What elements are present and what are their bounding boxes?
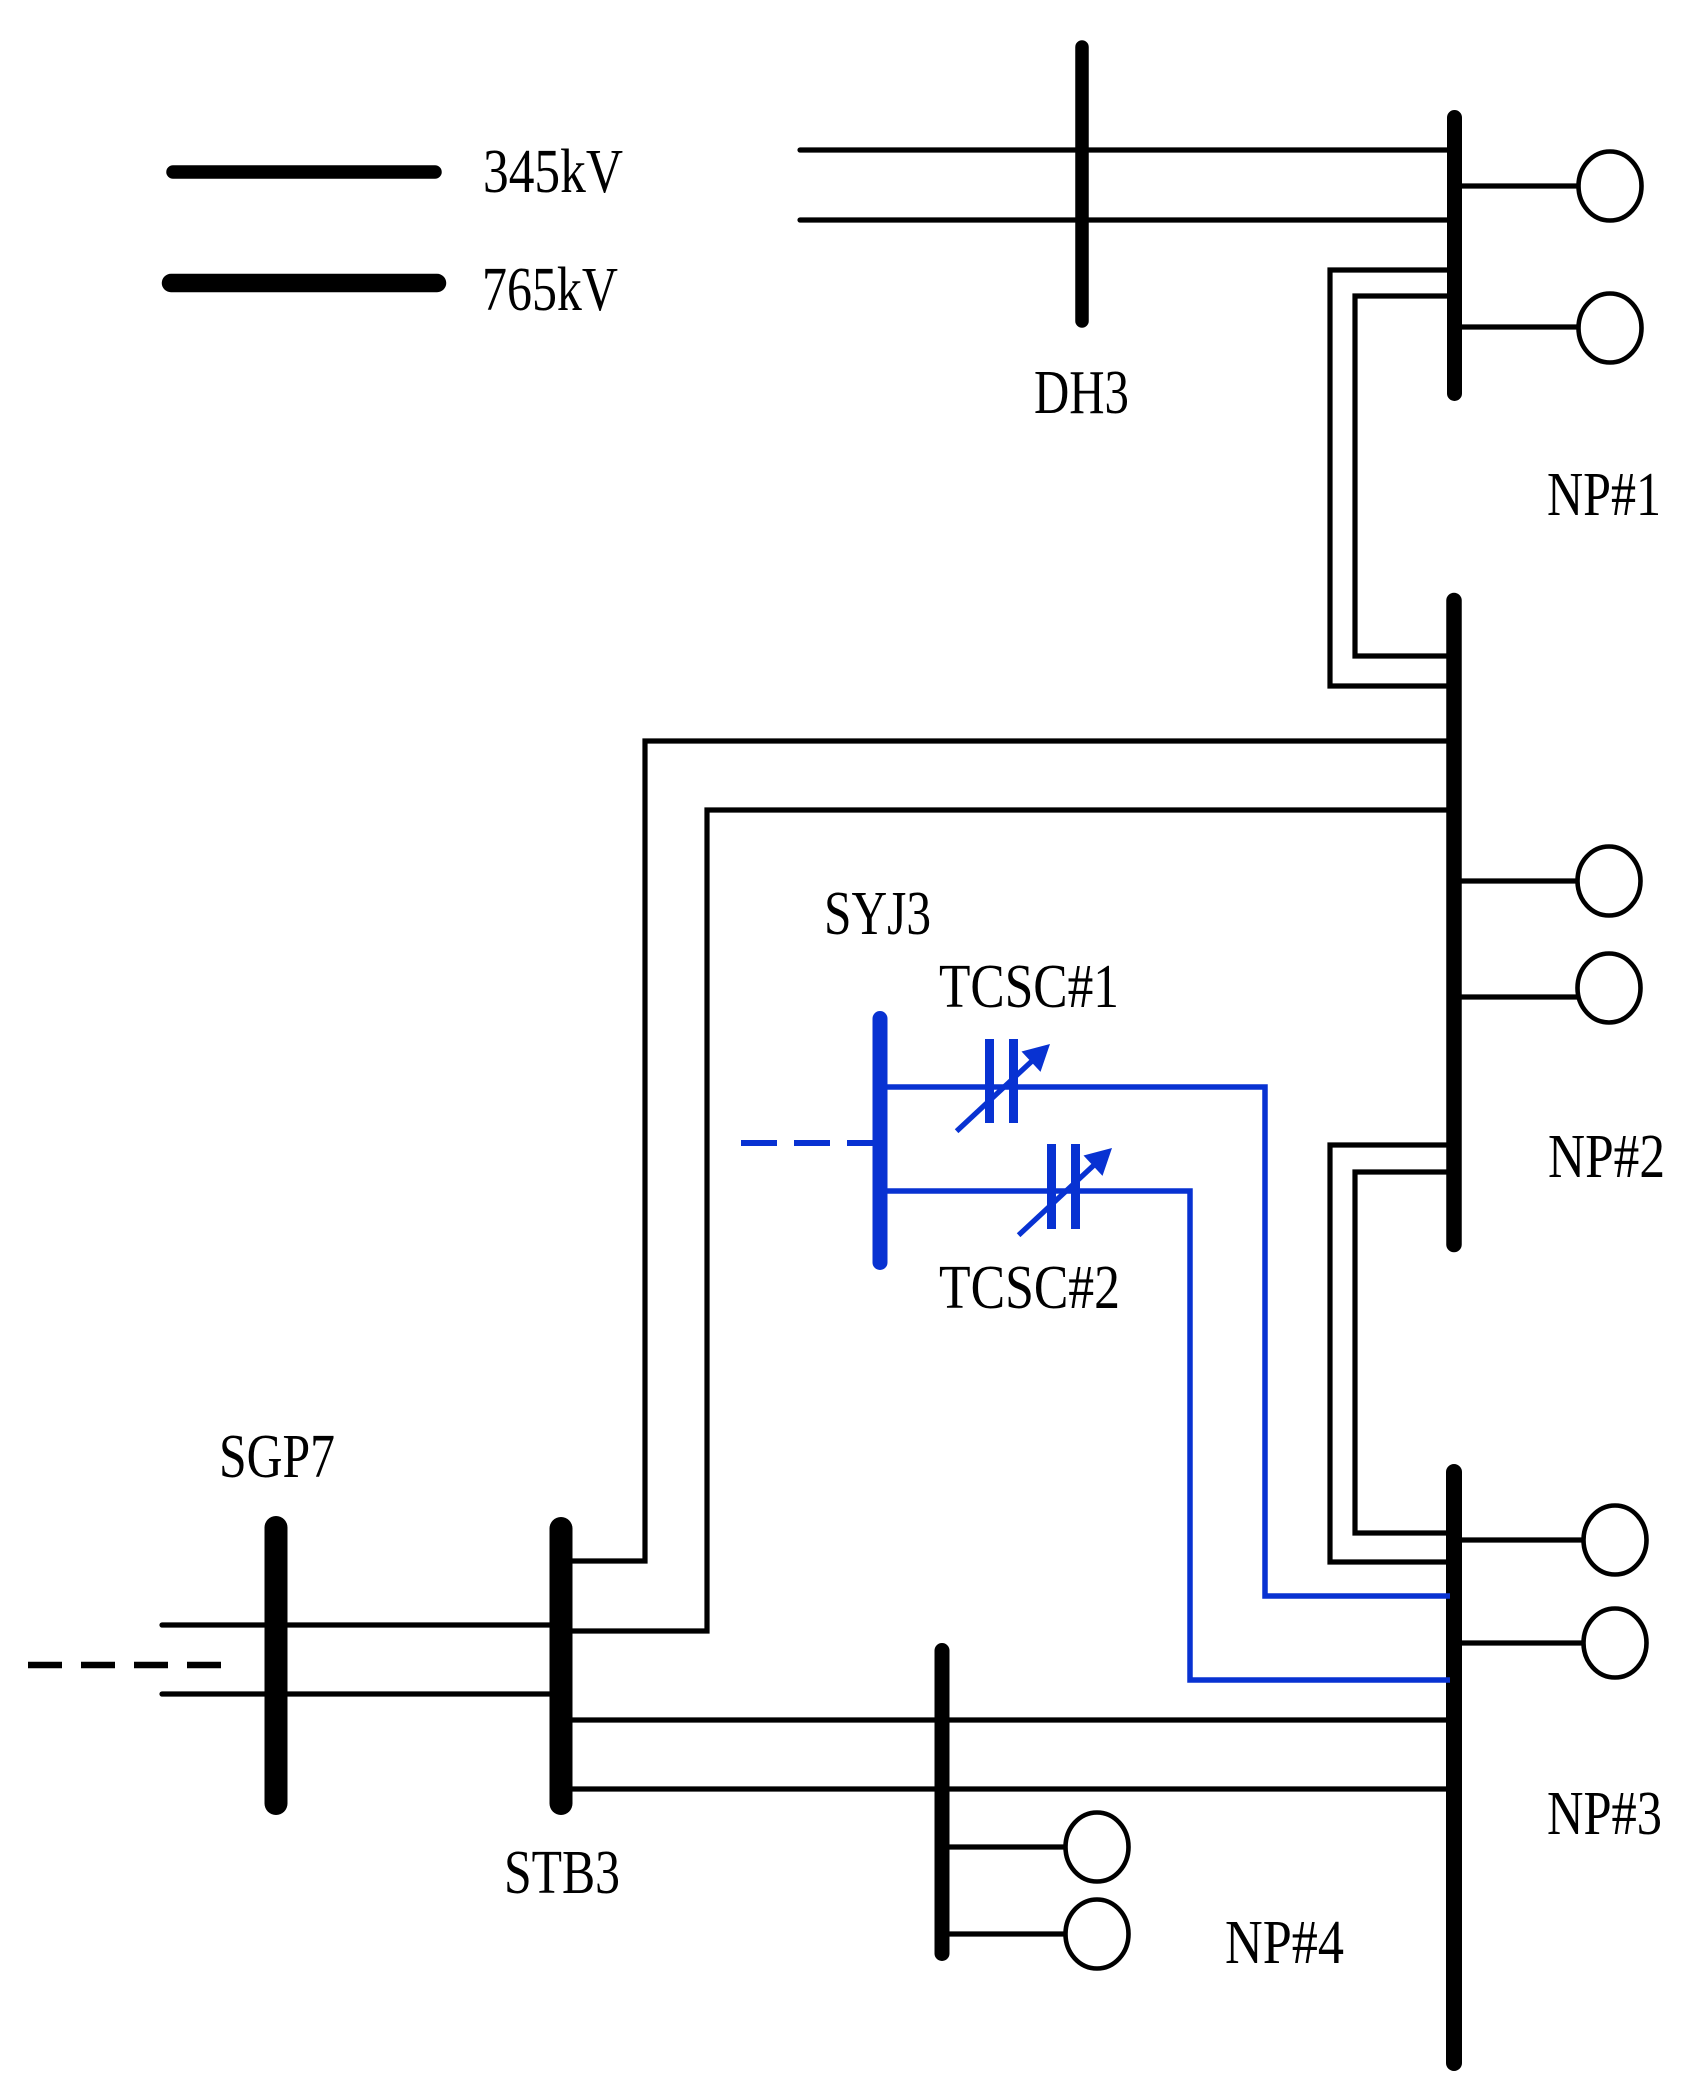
wire NP#1 to NP#2 outer circuit	[1330, 270, 1450, 686]
wire NP#3 generator 2 lead	[1454, 1640, 1583, 1645]
generator G7 at NP#4	[1066, 1813, 1129, 1882]
generator G6 at NP#3	[1584, 1609, 1647, 1678]
bus SGP7	[265, 1528, 288, 1804]
svg-text:TCSC#2: TCSC#2	[939, 1254, 1120, 1322]
wire NP#2 to NP#3 inner circuit	[1355, 1172, 1450, 1533]
wire TCSC#1 branch (blue) SYJ3 to NP#3	[880, 1087, 1450, 1596]
wire SGP7 to STB3 lower	[162, 1691, 561, 1696]
bus NP#3	[1446, 1472, 1462, 2063]
capacitor TCSC#2 plate 2	[1071, 1144, 1080, 1229]
legend 345kV line	[173, 165, 435, 179]
svg-text:TCSC#1: TCSC#1	[939, 953, 1119, 1021]
bus NP#2	[1446, 601, 1462, 1245]
dashed boundary wire at SGP7	[28, 1662, 222, 1669]
svg-text:SGP7: SGP7	[219, 1423, 335, 1491]
capacitor TCSC#2 plate 1	[1047, 1144, 1056, 1229]
wire NP#2 generator 2 lead	[1454, 994, 1578, 999]
dashed blue wire into SYJ3	[741, 1140, 873, 1146]
capacitor TCSC#1 plate 1	[985, 1039, 994, 1123]
wire NP#2 generator 1 lead	[1454, 878, 1577, 883]
svg-text:NP#1: NP#1	[1547, 461, 1661, 529]
generator G8 at NP#4	[1066, 1900, 1129, 1969]
wire STB3 to NP#3 lower (through NP#4)	[561, 1786, 1454, 1791]
generator G5 at NP#3	[1584, 1506, 1647, 1575]
legend 765kV line	[171, 274, 437, 293]
bus STB3	[550, 1529, 573, 1804]
bus SYJ3 (blue)	[873, 1019, 888, 1263]
svg-text:STB3: STB3	[504, 1839, 620, 1907]
bus DH3	[1075, 47, 1089, 321]
TCSC#2 variable arrow	[1019, 1161, 1098, 1235]
generator G1 at NP#1	[1579, 152, 1642, 221]
wire NP#1 generator 1 lead	[1454, 183, 1579, 188]
wire line A DH3 to NP#1	[800, 147, 1450, 152]
svg-text:DH3: DH3	[1034, 359, 1129, 427]
wire SGP7 to STB3 upper	[162, 1622, 561, 1627]
wire NP#4 generator 1 lead	[942, 1844, 1065, 1849]
generator G4 at NP#2	[1578, 954, 1641, 1023]
wire NP#1 to NP#2 inner circuit	[1355, 296, 1450, 656]
bus NP#4	[935, 1651, 950, 1954]
generator G2 at NP#1	[1579, 294, 1642, 363]
wire line B DH3 to NP#1	[800, 217, 1450, 222]
wire NP#3 generator 1 lead	[1454, 1537, 1583, 1542]
wire NP#1 generator 2 lead	[1454, 324, 1579, 329]
capacitor TCSC#1 plate 2	[1009, 1039, 1018, 1123]
wire STB3 to NP#2 inner circuit	[561, 810, 1450, 1631]
wire STB3 to NP#2 outer circuit	[561, 741, 1450, 1561]
svg-text:NP#4: NP#4	[1225, 1909, 1344, 1977]
svg-text:SYJ3: SYJ3	[824, 880, 931, 948]
bus NP#1	[1447, 118, 1462, 394]
wire STB3 to NP#3 upper (through NP#4)	[561, 1717, 1454, 1722]
generator G3 at NP#2	[1578, 847, 1641, 916]
TCSC#1 variable arrow	[957, 1057, 1036, 1131]
svg-text:NP#2: NP#2	[1548, 1123, 1665, 1191]
svg-text:345kV: 345kV	[483, 138, 623, 206]
wire NP#4 generator 2 lead	[942, 1931, 1065, 1936]
wire NP#2 to NP#3 outer circuit	[1330, 1145, 1450, 1562]
svg-text:NP#3: NP#3	[1547, 1780, 1662, 1848]
wire TCSC#2 branch (blue) SYJ3 to NP#3	[880, 1191, 1450, 1680]
svg-text:765kV: 765kV	[482, 256, 618, 324]
